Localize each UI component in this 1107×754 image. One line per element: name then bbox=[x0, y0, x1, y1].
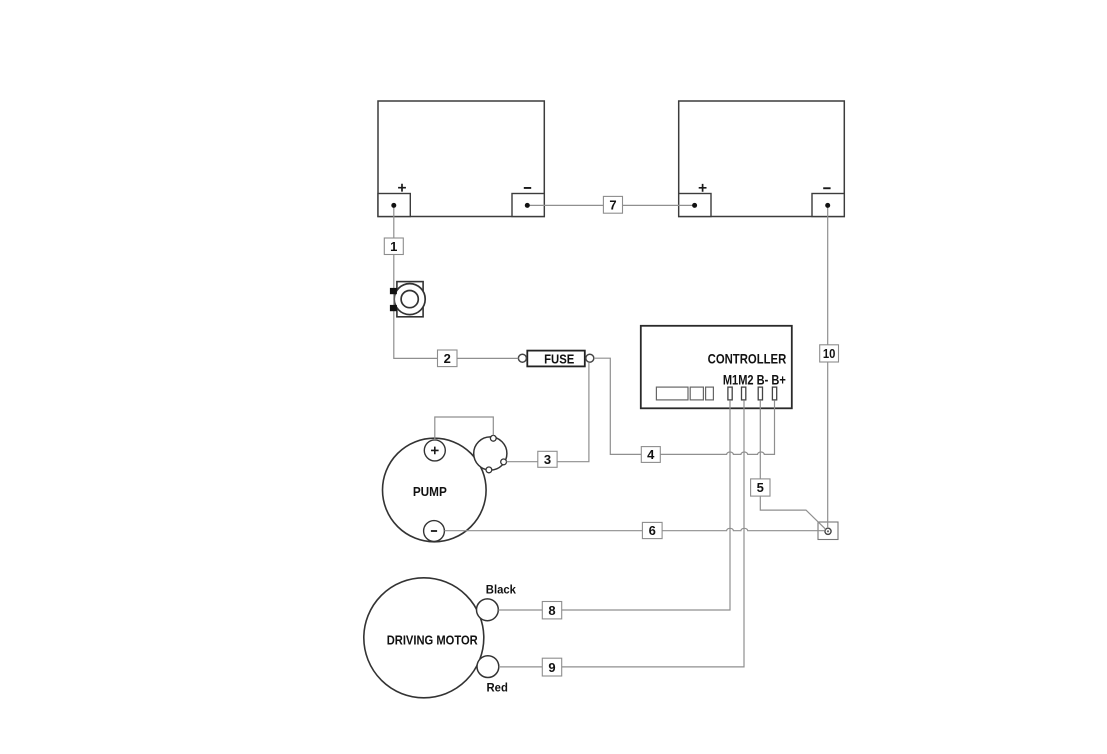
pump negative terminal bbox=[424, 521, 445, 542]
battery B1 minus sign bbox=[524, 187, 531, 189]
wire 5 controller B- to junction bbox=[760, 400, 825, 529]
svg-text:PUMP: PUMP bbox=[413, 484, 447, 499]
battery B2 negative post bbox=[825, 203, 830, 208]
wire 10 battery B2 minus to junction bbox=[827, 205, 829, 528]
pump positive terminal bbox=[424, 440, 445, 461]
battery B2 positive post bbox=[692, 203, 697, 208]
battery B2 positive terminal box bbox=[679, 194, 711, 217]
wire 9 driving motor red to controller M2 bbox=[499, 400, 744, 667]
pump motor bbox=[383, 438, 487, 542]
battery B1 negative terminal box bbox=[512, 194, 544, 217]
junction terminal block bbox=[818, 522, 838, 540]
callout 10 bbox=[820, 345, 839, 362]
svg-text:Red: Red bbox=[487, 680, 508, 695]
callout 5 bbox=[751, 479, 770, 496]
callout 9 bbox=[542, 658, 561, 676]
svg-text:6: 6 bbox=[649, 523, 656, 538]
controller pin M2 bbox=[742, 387, 746, 400]
svg-text:FUSE: FUSE bbox=[544, 352, 574, 367]
svg-text:2: 2 bbox=[444, 351, 451, 366]
driving motor red terminal bbox=[477, 656, 499, 678]
driving motor black terminal bbox=[477, 599, 499, 621]
callout 1 bbox=[384, 238, 403, 255]
callout 6 bbox=[642, 522, 662, 538]
svg-text:7: 7 bbox=[609, 198, 616, 213]
battery B1 positive post bbox=[391, 203, 396, 208]
battery B1 negative post bbox=[525, 203, 530, 208]
svg-text:9: 9 bbox=[548, 660, 555, 675]
key switch solenoid bbox=[394, 282, 425, 317]
controller pin B- bbox=[758, 387, 762, 400]
wire pump plus jumper to pump solenoid bbox=[435, 417, 494, 440]
battery B2 negative terminal box bbox=[812, 194, 844, 217]
fuse F1 bbox=[518, 351, 593, 367]
wire 1 battery B1 plus to key switch to fuse bbox=[394, 205, 519, 358]
svg-text:3: 3 bbox=[544, 452, 551, 467]
controller U1 bbox=[641, 326, 792, 409]
callout 2 bbox=[438, 350, 458, 367]
svg-text:Black: Black bbox=[486, 582, 517, 597]
svg-text:10: 10 bbox=[823, 346, 836, 361]
wire 4 fuse output to controller B+ with hops bbox=[594, 358, 775, 454]
battery B1 positive terminal box bbox=[378, 194, 410, 217]
svg-text:M1M2 B- B+: M1M2 B- B+ bbox=[723, 373, 786, 388]
callout 8 bbox=[542, 602, 561, 619]
wire 7 battery B1 minus to battery B2 plus bbox=[527, 204, 694, 206]
battery B2 minus sign bbox=[823, 187, 830, 189]
wire 8 driving motor black to controller M1 bbox=[498, 400, 730, 610]
pump solenoid valve bbox=[474, 435, 507, 472]
svg-text:5: 5 bbox=[757, 480, 764, 495]
svg-text:1: 1 bbox=[390, 239, 397, 254]
svg-text:4: 4 bbox=[647, 447, 655, 462]
callout 4 bbox=[641, 447, 660, 463]
battery B1 plus sign bbox=[398, 184, 406, 192]
callout 3 bbox=[538, 451, 557, 467]
wire 3 pump solenoid to fuse output bbox=[507, 362, 589, 462]
controller internal connector blocks bbox=[656, 387, 713, 400]
driving motor bbox=[364, 578, 484, 698]
key switch terminal lugs bbox=[390, 288, 397, 294]
svg-text:CONTROLLER: CONTROLLER bbox=[708, 351, 787, 366]
wire 6 pump negative to junction with hops bbox=[444, 528, 825, 530]
callout 7 bbox=[603, 196, 622, 213]
battery B2 bbox=[679, 101, 845, 217]
svg-text:DRIVING MOTOR: DRIVING MOTOR bbox=[387, 633, 478, 648]
svg-text:8: 8 bbox=[548, 603, 555, 618]
controller pin M1 bbox=[728, 387, 732, 400]
battery B2 plus sign bbox=[699, 184, 707, 192]
battery B1 bbox=[378, 101, 544, 217]
controller pin B+ bbox=[772, 387, 776, 400]
